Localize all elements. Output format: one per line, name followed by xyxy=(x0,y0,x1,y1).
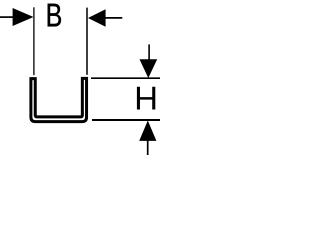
U-channel profile cross-section outline xyxy=(31,78,87,121)
arrowhead: dimension B right (points left) xyxy=(88,9,106,27)
label H (height dimension) xyxy=(137,87,155,110)
wire: dimension B right leader line xyxy=(105,17,122,19)
wire: dimension B left leader line xyxy=(0,16,14,18)
arrowhead: dimension H top (points down) xyxy=(140,59,158,78)
wire: dimension H bottom extension line xyxy=(92,119,160,121)
wire: dimension H top extension line xyxy=(91,77,160,79)
arrowhead: dimension B left (points right) xyxy=(13,8,34,26)
arrowhead: dimension H bottom (points up) xyxy=(139,121,156,141)
wire: dimension B right extension line xyxy=(86,8,88,75)
wire: dimension H top leader line xyxy=(148,44,150,60)
label B (width dimension) xyxy=(48,4,61,27)
wire: dimension H bottom leader line xyxy=(147,141,149,156)
wire: dimension B left extension line xyxy=(33,7,35,75)
